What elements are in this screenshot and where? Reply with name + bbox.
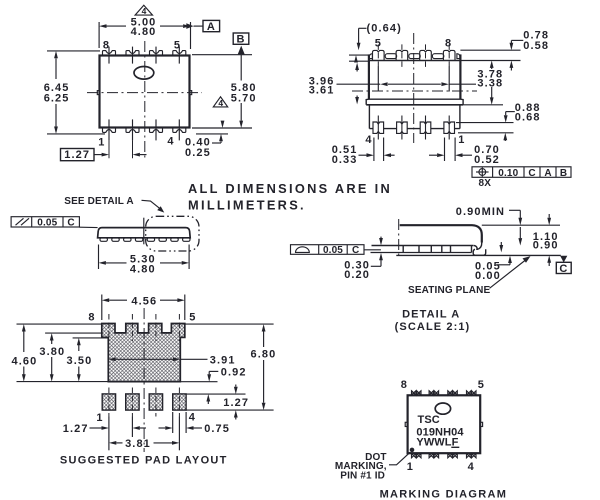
skirt walls: [368, 105, 370, 129]
dim 3.80: [50, 333, 54, 340]
detail body bottom line: [372, 245, 474, 247]
lead tab pin7: [420, 44, 432, 68]
svg-text:(0.64): (0.64): [367, 22, 402, 34]
svg-text:PIN #1 ID: PIN #1 ID: [340, 470, 385, 481]
true position symbol: [479, 169, 486, 176]
svg-text:5: 5: [478, 379, 485, 391]
svg-text:B: B: [236, 34, 245, 46]
body top line: [369, 60, 461, 62]
shoulder slot 1: [385, 54, 396, 59]
finger centerlines: [108, 314, 110, 341]
bottom pad 2: [126, 394, 139, 410]
flange ledge: [366, 99, 463, 105]
svg-text:0.75: 0.75: [204, 423, 230, 435]
svg-text:0.33: 0.33: [332, 154, 358, 166]
svg-text:4.56: 4.56: [131, 295, 157, 307]
svg-text:1: 1: [98, 136, 105, 148]
body top ext line right: [460, 60, 520, 62]
dim 5.00/4.80: [99, 24, 106, 28]
svg-text:4.60: 4.60: [11, 355, 37, 367]
dim 4.60: [22, 324, 26, 331]
foot pin1: [444, 116, 455, 140]
skirt bottom edge segments: [369, 128, 460, 130]
outer tab centerline extensions: [377, 67, 379, 92]
top edge ext right: [482, 224, 560, 226]
dim 5.00/4.80 extension lines: [98, 22, 100, 48]
svg-text:3.80: 3.80: [39, 346, 65, 358]
svg-text:5: 5: [174, 40, 181, 52]
datum B flag: [238, 46, 245, 55]
svg-text:0.25: 0.25: [185, 147, 211, 159]
left ext lines: [17, 323, 102, 325]
svg-text:6.80: 6.80: [250, 348, 276, 360]
horizontal centerline: [352, 90, 477, 92]
svg-text:5: 5: [189, 312, 196, 324]
svg-text:0.10: 0.10: [498, 168, 518, 179]
section line: [143, 218, 145, 245]
svg-text:0.68: 0.68: [515, 112, 541, 124]
svg-text:8: 8: [401, 379, 408, 391]
datum A flag: [186, 23, 193, 29]
frame leader line: [364, 249, 381, 251]
svg-text:4: 4: [468, 461, 475, 473]
svg-text:0.92: 0.92: [221, 366, 247, 378]
bottom pad 1: [102, 394, 115, 410]
svg-text:4: 4: [142, 6, 147, 16]
dim 0.40/0.25: [196, 133, 228, 135]
body left wall: [368, 54, 370, 99]
svg-text:4: 4: [189, 412, 196, 424]
pin 1 marker oval: [134, 67, 154, 80]
svg-text:0.20: 0.20: [344, 269, 370, 281]
combined thermal pad with finger notches: [102, 324, 185, 382]
svg-text:3.61: 3.61: [309, 84, 335, 96]
svg-text:4.80: 4.80: [131, 26, 157, 38]
svg-text:1: 1: [458, 134, 465, 146]
svg-text:0.52: 0.52: [474, 154, 500, 166]
triangle flag 4 top: [135, 5, 152, 16]
svg-text:8X: 8X: [479, 178, 492, 189]
svg-text:5.70: 5.70: [231, 92, 257, 104]
tab top ext line right: [460, 49, 520, 51]
svg-text:6.25: 6.25: [44, 92, 70, 104]
foot pin2: [420, 116, 431, 140]
svg-text:1.27: 1.27: [223, 397, 249, 409]
small up arrow 0.64: [354, 55, 358, 62]
foot bottom ext line: [458, 132, 514, 134]
dim 3.96/3.61 vertical arrows: [355, 63, 359, 70]
dim 6.80: [262, 324, 266, 331]
bottom pin 4: [173, 119, 186, 140]
dim 1.27 boxed: [61, 149, 95, 161]
svg-text:3.81: 3.81: [125, 438, 151, 450]
vertical centerline: [144, 41, 146, 159]
dim 5.80/5.70 extension lines: [192, 54, 252, 56]
svg-text:ALL DIMENSIONS ARE IN: ALL DIMENSIONS ARE IN: [188, 181, 392, 196]
top pin 5: [173, 47, 186, 64]
bottom pin 2: [126, 119, 139, 158]
dim 0.51/0.33 ext lines: [373, 138, 375, 162]
svg-text:SUGGESTED PAD LAYOUT: SUGGESTED PAD LAYOUT: [60, 454, 228, 466]
detail boundary: [146, 216, 199, 251]
svg-text:4: 4: [218, 98, 223, 108]
dim 4.56 ext lines: [101, 295, 103, 321]
pad vertical centerline: [143, 308, 145, 452]
profile frame: [291, 245, 365, 255]
svg-text:1: 1: [96, 412, 103, 424]
dim 3.81 ext line right: [178, 417, 180, 451]
marking side nubs: [405, 422, 407, 426]
svg-text:1: 1: [407, 461, 414, 473]
svg-text:DETAIL A: DETAIL A: [402, 309, 460, 321]
dim 3.91: [108, 357, 115, 361]
svg-text:(SCALE 2:1): (SCALE 2:1): [395, 321, 471, 333]
dim 0.70/0.52: [429, 154, 437, 156]
dim 3.78/3.38 vertical: [490, 61, 494, 68]
pin centerline span dimension: [337, 83, 381, 85]
frame attach line: [79, 226, 97, 228]
bottom pad 3: [149, 394, 162, 410]
underline under F: [451, 446, 459, 448]
top pin 8: [103, 47, 116, 64]
ledge ext line right: [463, 104, 503, 106]
svg-text:8: 8: [88, 312, 95, 324]
dim 0.75: [159, 427, 166, 429]
bottom pad centerlines: [108, 388, 110, 417]
shoulder slot 2: [409, 54, 420, 59]
body top ext line left: [349, 60, 369, 62]
svg-text:0.05: 0.05: [37, 217, 57, 228]
bottom pin 1: [103, 119, 116, 158]
svg-text:0.00: 0.00: [475, 270, 501, 282]
bottom pad 4: [173, 394, 186, 410]
right ext lines: [185, 323, 274, 325]
svg-text:SEATING PLANE: SEATING PLANE: [408, 285, 491, 296]
dim 5.30/4.80 ext lines: [98, 245, 100, 270]
foot pin4: [373, 116, 384, 140]
svg-text:A: A: [544, 168, 551, 179]
mold gate nub left: [97, 91, 99, 95]
lead tab pin6: [396, 44, 408, 68]
svg-text:8: 8: [445, 38, 452, 50]
detail body top: [400, 225, 482, 242]
side view body: [98, 228, 191, 238]
svg-text:C: C: [559, 263, 568, 275]
marking top pins: [412, 391, 477, 395]
dim 1.27 right: [235, 385, 237, 387]
svg-text:1.27: 1.27: [63, 423, 89, 435]
dim 6.45/6.25 extension lines: [47, 50, 100, 52]
foot top ext line: [456, 122, 514, 124]
dim 4.56: [102, 298, 109, 302]
parallelism frame: [11, 217, 79, 227]
dim 3.81: [109, 441, 116, 445]
dot marking leader: [389, 452, 410, 465]
side view leads: [100, 238, 190, 242]
top pin 6: [150, 47, 163, 64]
datum C: [560, 256, 567, 263]
svg-text:C: C: [528, 168, 535, 179]
svg-text:3.38: 3.38: [477, 77, 503, 89]
feature control frame: [472, 167, 571, 178]
svg-text:MILLIMETERS.: MILLIMETERS.: [188, 197, 306, 212]
svg-text:MARKING DIAGRAM: MARKING DIAGRAM: [380, 488, 508, 500]
svg-text:TSC: TSC: [418, 414, 440, 426]
svg-text:3.91: 3.91: [210, 354, 236, 366]
svg-text:3.50: 3.50: [66, 355, 92, 367]
detail foot boxes: [403, 246, 471, 253]
mold gate nub right: [190, 91, 192, 95]
svg-text:C: C: [67, 217, 74, 228]
svg-text:SEE DETAIL A: SEE DETAIL A: [64, 196, 133, 207]
dim 0.75 ext lines: [172, 412, 174, 433]
svg-text:A: A: [207, 21, 216, 33]
dim 5.80/5.70: [240, 55, 242, 81]
detail right foot: [473, 249, 486, 255]
svg-text:4: 4: [365, 134, 372, 146]
svg-text:1.27: 1.27: [64, 149, 90, 161]
vertical centerline: [413, 33, 415, 143]
svg-text:0.90: 0.90: [533, 240, 559, 252]
bottom pin 3: [150, 119, 163, 140]
detail lead bend: [474, 243, 482, 250]
svg-text:0.58: 0.58: [523, 40, 549, 52]
svg-text:C: C: [352, 245, 359, 256]
seating plane line: [396, 254, 561, 256]
shoulder slot end right: [457, 54, 460, 59]
pin1 dot marking: [410, 448, 415, 453]
lead tab pin5: [373, 44, 385, 68]
shoulder slot 3: [432, 54, 443, 59]
svg-text:8: 8: [103, 40, 110, 52]
package body outline: [100, 56, 190, 128]
break centerline: [398, 219, 400, 256]
dim 6.45/6.25: [54, 51, 58, 58]
lead tab pin8: [443, 44, 455, 68]
svg-text:0.05: 0.05: [323, 245, 343, 256]
dim 3.50: [77, 338, 81, 345]
horizontal centerline: [87, 92, 202, 94]
svg-text:0.90MIN: 0.90MIN: [456, 206, 505, 218]
triangle flag 4 right: [213, 97, 227, 108]
top pin 7: [126, 47, 139, 64]
marking oval: [435, 403, 450, 414]
dim 0.70/0.52 ext lines: [444, 138, 446, 162]
foot pin3: [397, 116, 408, 140]
body right wall: [459, 54, 461, 99]
svg-text:5: 5: [375, 38, 382, 50]
shoulder ext line: [349, 54, 369, 56]
svg-text:4: 4: [167, 136, 174, 148]
marking bottom pins: [412, 454, 477, 458]
marking body: [408, 395, 481, 453]
shoulder slot end left: [369, 54, 372, 59]
svg-text:B: B: [560, 168, 567, 179]
detail lead bottom line: [371, 252, 472, 254]
dim 1.27 bottom ext lines: [108, 417, 110, 451]
svg-text:4.80: 4.80: [130, 264, 156, 276]
dim 5.30/4.80: [99, 261, 106, 265]
